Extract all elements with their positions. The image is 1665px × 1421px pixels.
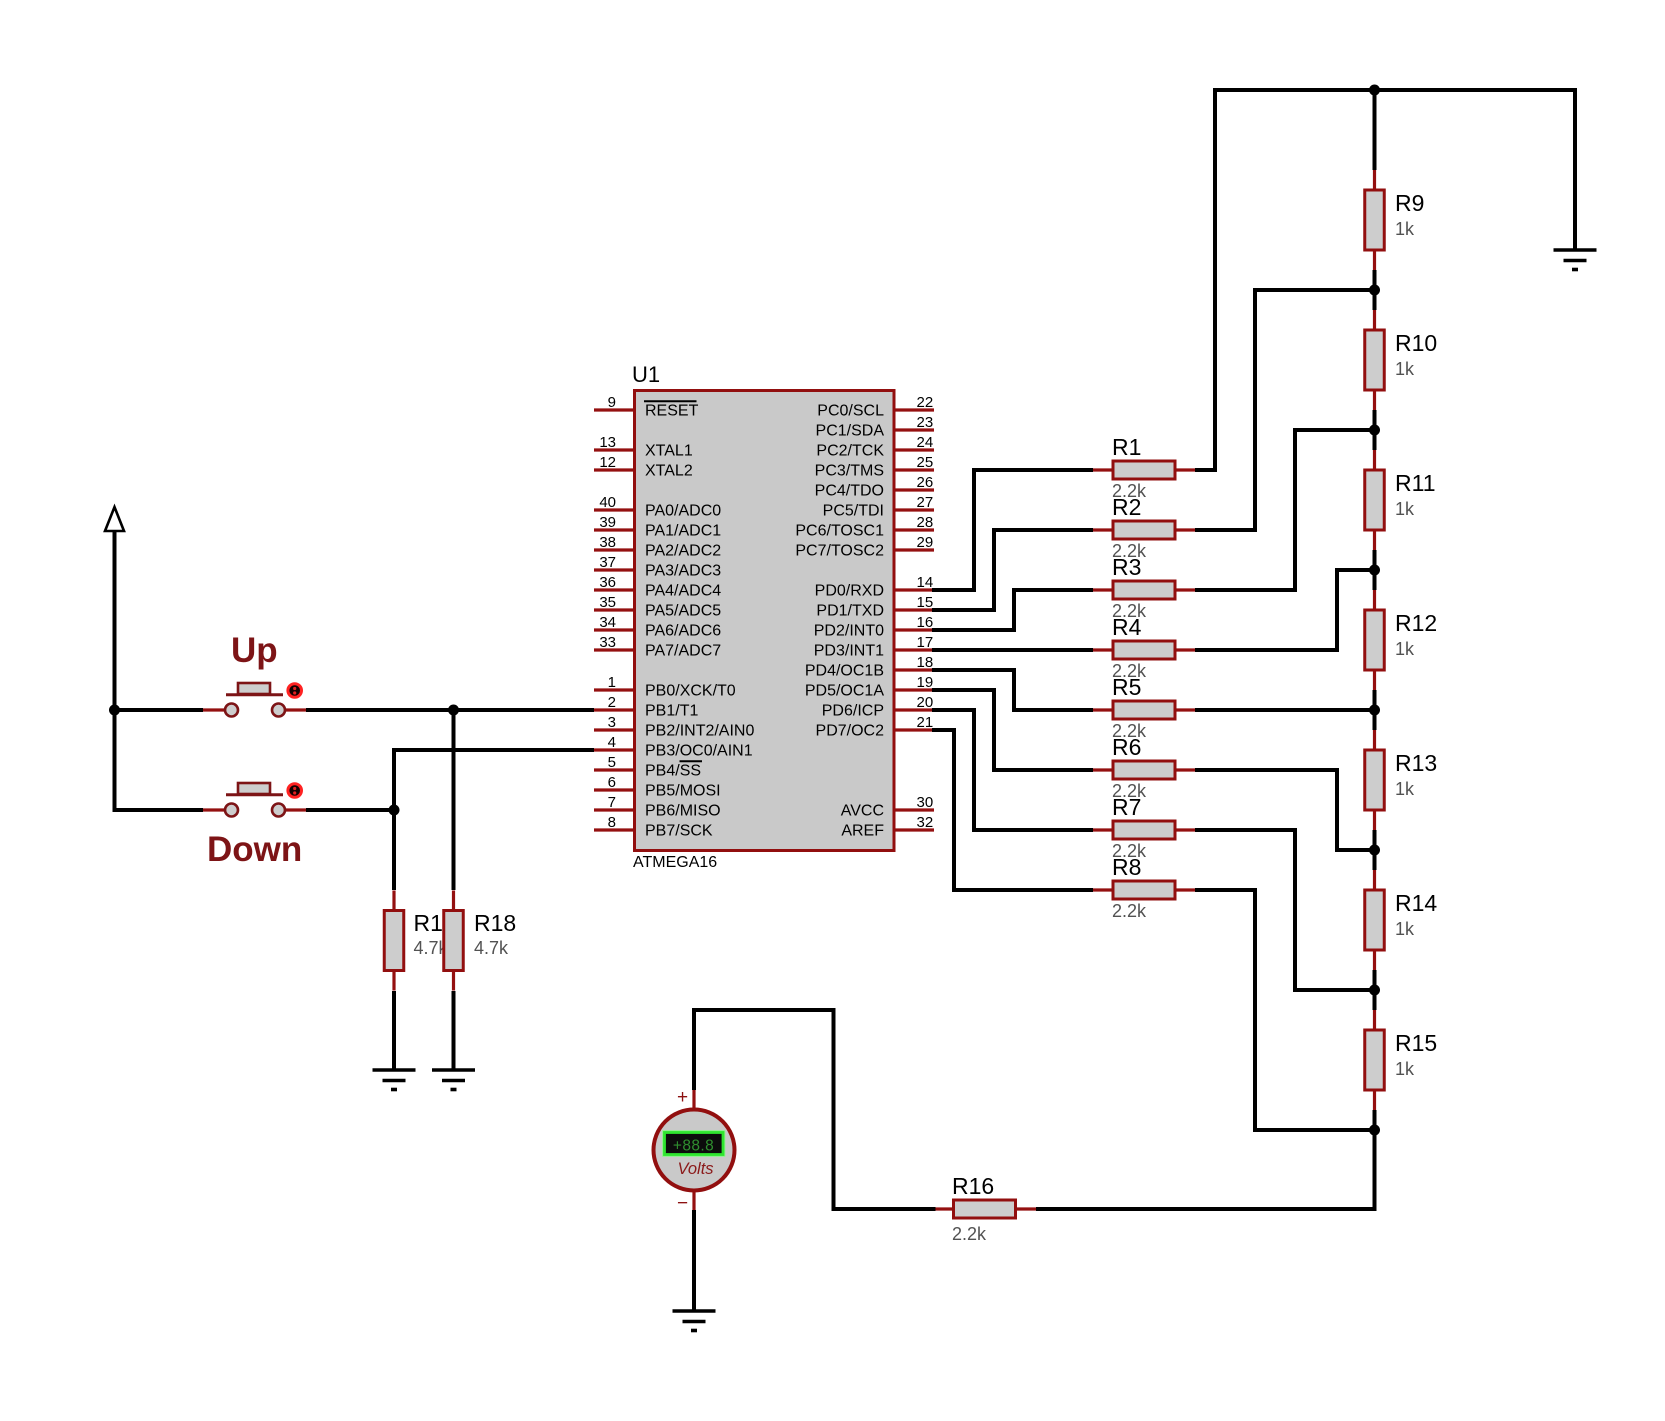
svg-text:22: 22 xyxy=(917,394,934,411)
wire voltmeter positive riser xyxy=(692,1008,696,1090)
svg-text:37: 37 xyxy=(599,554,616,571)
resistor R12 body xyxy=(1365,610,1385,670)
svg-text:PD2/INT0: PD2/INT0 xyxy=(814,623,884,640)
resistor R13 bottom lead xyxy=(1373,810,1376,830)
svg-text:PC4/TDO: PC4/TDO xyxy=(815,483,884,500)
resistor R1 left lead xyxy=(1093,468,1113,471)
resistor R8 left lead xyxy=(1093,888,1113,891)
svg-text:PD0/RXD: PD0/RXD xyxy=(815,583,884,600)
svg-text:R2: R2 xyxy=(1112,494,1141,520)
svg-text:R12: R12 xyxy=(1395,610,1437,636)
wire power vertical rail xyxy=(113,531,117,810)
node ladder junction y=290 xyxy=(1369,285,1380,296)
svg-text:29: 29 xyxy=(917,534,934,551)
pin 14 (PD0/RXD) lead xyxy=(894,588,934,591)
resistor R3 body xyxy=(1113,581,1175,599)
resistor R7 right lead xyxy=(1175,828,1196,831)
resistor R7 left lead xyxy=(1093,828,1113,831)
svg-text:R5: R5 xyxy=(1112,674,1141,700)
svg-text:PB2/INT2/AIN0: PB2/INT2/AIN0 xyxy=(645,723,754,740)
push button Down left terminal xyxy=(225,804,238,817)
svg-text:RESET: RESET xyxy=(645,403,699,420)
node ladder junction y=1130 xyxy=(1369,1125,1380,1136)
svg-text:XTAL1: XTAL1 xyxy=(645,443,693,460)
svg-text:30: 30 xyxy=(917,794,934,811)
pin 24 (PC2/TCK) lead xyxy=(894,448,934,451)
resistor R2 right lead xyxy=(1175,528,1196,531)
pin 35 (PA5/ADC5) lead xyxy=(594,608,634,611)
svg-text:2.2k: 2.2k xyxy=(952,1224,987,1244)
ground below R1 xyxy=(373,1070,416,1090)
svg-text:8: 8 xyxy=(608,814,616,831)
svg-text:AREF: AREF xyxy=(841,823,884,840)
wire R7 to ladder node F xyxy=(1195,828,1297,832)
resistor R14 bottom lead xyxy=(1373,950,1376,970)
svg-text:PD3/INT1: PD3/INT1 xyxy=(814,643,884,660)
node junction to R18 xyxy=(448,705,459,716)
wire ladder spine segment xyxy=(1373,270,1377,310)
svg-text:32: 32 xyxy=(917,814,934,831)
push button Down plunger bar xyxy=(238,783,270,794)
svg-text:PA6/ADC6: PA6/ADC6 xyxy=(645,623,721,640)
voltmeter LCD display xyxy=(663,1131,725,1156)
pin 5 (PB4/SS) lead xyxy=(594,768,634,771)
wire junction up to PB3 row xyxy=(392,748,396,810)
resistor R3 left lead xyxy=(1093,588,1113,591)
push button Down actuator xyxy=(288,784,302,798)
wire top rail down to ground xyxy=(1573,88,1577,250)
resistor R16 body xyxy=(954,1200,1016,1218)
svg-text:PA7/ADC7: PA7/ADC7 xyxy=(645,643,721,660)
svg-text:AVCC: AVCC xyxy=(841,803,884,820)
ground top right xyxy=(1554,250,1597,270)
pin 30 (AVCC) lead xyxy=(894,808,934,811)
wire junction down to R1 xyxy=(392,810,396,890)
resistor R14 body xyxy=(1365,890,1385,950)
wire pin 14 to R1 xyxy=(932,588,974,592)
push button Down left lead xyxy=(203,808,225,811)
svg-text:1k: 1k xyxy=(1395,1059,1415,1079)
resistor R2 left lead xyxy=(1093,528,1113,531)
resistor R13 body xyxy=(1365,750,1385,810)
push button Up actuator xyxy=(288,684,302,698)
resistor R1 right lead xyxy=(1175,468,1196,471)
pin 33 (PA7/ADC7) lead xyxy=(594,648,634,651)
svg-text:18: 18 xyxy=(917,654,934,671)
resistor R9 top lead xyxy=(1373,170,1376,190)
pin 27 (PC5/TDI) lead xyxy=(894,508,934,511)
resistor R3 right lead xyxy=(1175,588,1196,591)
resistor R10 top lead xyxy=(1373,310,1376,330)
wire Down row to junction xyxy=(306,808,394,812)
svg-text:6: 6 xyxy=(608,774,616,791)
resistor R15 body xyxy=(1365,1030,1385,1090)
svg-text:1: 1 xyxy=(608,674,616,691)
svg-text:PA3/ADC3: PA3/ADC3 xyxy=(645,563,721,580)
wire R3 to ladder node B xyxy=(1195,588,1297,592)
svg-text:14: 14 xyxy=(917,574,934,591)
op-amp n/a — microcontroller U1 body xyxy=(635,391,895,851)
wire pin 20 to R7 xyxy=(932,708,974,712)
wire R2 to ladder node A xyxy=(1195,528,1257,532)
wire ladder spine segment xyxy=(1373,970,1377,1010)
resistor R1(4k7) body xyxy=(384,911,404,971)
push button Up right lead xyxy=(285,708,306,711)
svg-text:PD1/TXD: PD1/TXD xyxy=(816,603,884,620)
svg-text:PD6/ICP: PD6/ICP xyxy=(822,703,884,720)
svg-text:PB6/MISO: PB6/MISO xyxy=(645,803,721,820)
wire R18 to ground xyxy=(452,991,456,1070)
resistor R12 bottom lead xyxy=(1373,670,1376,690)
wire pin 21 to R8 xyxy=(932,728,954,732)
svg-text:9: 9 xyxy=(608,394,616,411)
node ladder junction y=850 xyxy=(1369,845,1380,856)
resistor R16 right lead xyxy=(1016,1207,1037,1210)
svg-text:PC5/TDI: PC5/TDI xyxy=(823,503,884,520)
pin 12 (XTAL2) lead xyxy=(594,468,634,471)
wire R6 to ladder node E xyxy=(1195,768,1339,772)
push button Up left lead xyxy=(203,708,225,711)
resistor R2 body xyxy=(1113,521,1175,539)
wire ladder spine segment xyxy=(1373,550,1377,590)
voltmeter body xyxy=(654,1110,735,1191)
pin 18 (PD4/OC1B) lead xyxy=(894,668,934,671)
pin 20 (PD6/ICP) lead xyxy=(894,708,934,711)
svg-text:R1: R1 xyxy=(1112,434,1141,460)
svg-text:PB3/OC0/AIN1: PB3/OC0/AIN1 xyxy=(645,743,753,760)
wire ladder spine segment xyxy=(1373,1110,1377,1132)
push button Up plunger bar xyxy=(238,683,270,694)
pin 28 (PC6/TOSC1) lead xyxy=(894,528,934,531)
svg-text:39: 39 xyxy=(599,514,616,531)
svg-text:R9: R9 xyxy=(1395,190,1424,216)
svg-text:13: 13 xyxy=(599,434,616,451)
wire ladder spine segment xyxy=(1373,690,1377,730)
wire pin 19 to R6 xyxy=(932,688,994,692)
svg-text:4.7k: 4.7k xyxy=(474,938,509,958)
svg-text:28: 28 xyxy=(917,514,934,531)
pin 32 (AREF) lead xyxy=(894,828,934,831)
wire ladder bottom to R16 row xyxy=(1373,1130,1377,1211)
resistor R9 body xyxy=(1365,190,1385,250)
node junction Down/PB3/R1 xyxy=(389,805,400,816)
push button Down right lead xyxy=(285,808,306,811)
svg-text:33: 33 xyxy=(599,634,616,651)
wire ladder spine segment xyxy=(1373,90,1377,170)
pin 22 (PC0/SCL) lead xyxy=(894,408,934,411)
svg-text:40: 40 xyxy=(599,494,616,511)
svg-text:36: 36 xyxy=(599,574,616,591)
resistor R9 bottom lead xyxy=(1373,250,1376,270)
resistor R14 top lead xyxy=(1373,870,1376,890)
svg-text:PC3/TMS: PC3/TMS xyxy=(815,463,884,480)
svg-text:7: 7 xyxy=(608,794,616,811)
pin 6 (PB5/MOSI) lead xyxy=(594,788,634,791)
svg-text:PB1/T1: PB1/T1 xyxy=(645,703,698,720)
resistor R5 body xyxy=(1113,701,1175,719)
wire pin 18 to R5 xyxy=(932,668,1014,672)
pin 40 (PA0/ADC0) lead xyxy=(594,508,634,511)
push button Down contact bar xyxy=(226,793,283,796)
svg-text:XTAL2: XTAL2 xyxy=(645,463,693,480)
resistor R4 body xyxy=(1113,641,1175,659)
svg-text:1k: 1k xyxy=(1395,219,1415,239)
pin 17 (PD3/INT1) lead xyxy=(894,648,934,651)
svg-text:U1: U1 xyxy=(632,362,660,387)
resistor R15 top lead xyxy=(1373,1010,1376,1030)
svg-text:4: 4 xyxy=(608,734,616,751)
resistor R6 right lead xyxy=(1175,768,1196,771)
svg-text:ATMEGA16: ATMEGA16 xyxy=(633,854,717,871)
resistor R1(4k7) top lead xyxy=(392,891,395,911)
pin 21 (PD7/OC2) lead xyxy=(894,728,934,731)
pin 7 (PB6/MISO) lead xyxy=(594,808,634,811)
svg-text:PB4/SS: PB4/SS xyxy=(645,763,701,780)
svg-text:R7: R7 xyxy=(1112,794,1141,820)
svg-text:R13: R13 xyxy=(1395,750,1437,776)
resistor R13 top lead xyxy=(1373,730,1376,750)
svg-text:R3: R3 xyxy=(1112,554,1141,580)
resistor R8 body xyxy=(1113,881,1175,899)
resistor R5 left lead xyxy=(1093,708,1113,711)
resistor R16 left lead xyxy=(934,1207,954,1210)
resistor R8 right lead xyxy=(1175,888,1196,891)
pin 29 (PC7/TOSC2) lead xyxy=(894,548,934,551)
voltmeter minus lead xyxy=(692,1190,695,1210)
resistor R18 top lead xyxy=(452,891,455,911)
svg-text:PA2/ADC2: PA2/ADC2 xyxy=(645,543,721,560)
svg-text:16: 16 xyxy=(917,614,934,631)
svg-text:PA1/ADC1: PA1/ADC1 xyxy=(645,523,721,540)
svg-text:PA4/ADC4: PA4/ADC4 xyxy=(645,583,721,600)
node top rail / R9 junction xyxy=(1369,85,1380,96)
svg-text:PC2/TCK: PC2/TCK xyxy=(816,443,884,460)
pin 9 (RESET) lead xyxy=(594,408,634,411)
wire pin 16 to R3 xyxy=(932,628,1014,632)
wire Up row to PB1 pin 2 xyxy=(306,708,594,712)
svg-text:+88.8: +88.8 xyxy=(673,1138,714,1155)
svg-text:38: 38 xyxy=(599,534,616,551)
power supply arrow symbol xyxy=(105,507,124,531)
svg-text:3: 3 xyxy=(608,714,616,731)
pin 37 (PA3/ADC3) lead xyxy=(594,568,634,571)
resistor R11 body xyxy=(1365,470,1385,530)
wire R5 to ladder node D xyxy=(1195,708,1375,712)
wire ladder spine segment xyxy=(1373,410,1377,450)
svg-text:17: 17 xyxy=(917,634,934,651)
ground below voltmeter xyxy=(673,1311,716,1331)
push button Up contact bar xyxy=(226,693,283,696)
pin 25 (PC3/TMS) lead xyxy=(894,468,934,471)
pin 2 (PB1/T1) lead xyxy=(594,708,634,711)
svg-text:PB7/SCK: PB7/SCK xyxy=(645,823,713,840)
svg-text:21: 21 xyxy=(917,714,934,731)
svg-text:R15: R15 xyxy=(1395,1030,1437,1056)
svg-text:35: 35 xyxy=(599,594,616,611)
push button Up left terminal xyxy=(225,704,238,717)
svg-text:−: − xyxy=(677,1193,688,1214)
svg-text:2: 2 xyxy=(608,694,616,711)
wire R16 to voltmeter xyxy=(834,1207,936,1211)
pin 23 (PC1/SDA) lead xyxy=(894,428,934,431)
svg-text:+: + xyxy=(677,1087,688,1108)
pin 1 (PB0/XCK/T0) lead xyxy=(594,688,634,691)
svg-text:PD5/OC1A: PD5/OC1A xyxy=(805,683,884,700)
wire Up row left segment xyxy=(113,708,204,712)
node ladder junction y=570 xyxy=(1369,565,1380,576)
resistor R11 top lead xyxy=(1373,450,1376,470)
pin 39 (PA1/ADC1) lead xyxy=(594,528,634,531)
wire pin 15 to R2 xyxy=(932,608,994,612)
svg-text:34: 34 xyxy=(599,614,616,631)
resistor R10 bottom lead xyxy=(1373,390,1376,410)
overline on SS of PB4/SS xyxy=(680,760,703,762)
svg-text:5: 5 xyxy=(608,754,616,771)
svg-text:Volts: Volts xyxy=(677,1160,713,1178)
pin 26 (PC4/TDO) lead xyxy=(894,488,934,491)
svg-text:Down: Down xyxy=(207,830,302,869)
wire R18 riser xyxy=(452,710,456,890)
svg-text:23: 23 xyxy=(917,414,934,431)
svg-text:R8: R8 xyxy=(1112,854,1141,880)
svg-text:1k: 1k xyxy=(1395,919,1415,939)
wire R4 to ladder node C xyxy=(1195,648,1339,652)
svg-text:PC0/SCL: PC0/SCL xyxy=(817,403,884,420)
svg-text:25: 25 xyxy=(917,454,934,471)
node ladder junction y=710 xyxy=(1369,705,1380,716)
svg-text:R18: R18 xyxy=(474,910,516,936)
pin 15 (PD1/TXD) lead xyxy=(894,608,934,611)
svg-text:1k: 1k xyxy=(1395,359,1415,379)
svg-text:1k: 1k xyxy=(1395,499,1415,519)
svg-text:19: 19 xyxy=(917,674,934,691)
wire R1 to top rail xyxy=(1195,468,1217,472)
pin 13 (XTAL1) lead xyxy=(594,448,634,451)
node at Up row / power rail junction xyxy=(109,705,120,716)
resistor R6 left lead xyxy=(1093,768,1113,771)
svg-text:PD7/OC2: PD7/OC2 xyxy=(816,723,885,740)
pin 16 (PD2/INT0) lead xyxy=(894,628,934,631)
svg-text:20: 20 xyxy=(917,694,934,711)
wire to PB3 pin 4 xyxy=(392,748,594,752)
resistor R15 bottom lead xyxy=(1373,1090,1376,1110)
resistor R11 bottom lead xyxy=(1373,530,1376,550)
resistor R7 body xyxy=(1113,821,1175,839)
svg-text:24: 24 xyxy=(917,434,934,451)
wire Down row left segment xyxy=(113,808,204,812)
resistor R6 body xyxy=(1113,761,1175,779)
svg-text:PC1/SDA: PC1/SDA xyxy=(816,423,885,440)
wire R1 to ground xyxy=(392,991,396,1070)
svg-text:PB0/XCK/T0: PB0/XCK/T0 xyxy=(645,683,736,700)
svg-text:R6: R6 xyxy=(1112,734,1141,760)
wire voltmeter to ground xyxy=(692,1210,696,1311)
svg-text:12: 12 xyxy=(599,454,616,471)
wire R8 to ladder node G xyxy=(1195,888,1257,892)
overline on RESET xyxy=(644,400,697,402)
ground below R18 xyxy=(432,1070,475,1090)
svg-text:1k: 1k xyxy=(1395,639,1415,659)
wire top rail xyxy=(1213,88,1575,92)
svg-text:PD4/OC1B: PD4/OC1B xyxy=(805,663,884,680)
pin 38 (PA2/ADC2) lead xyxy=(594,548,634,551)
wire pin 17 to R4 xyxy=(932,648,1093,652)
svg-text:R16: R16 xyxy=(952,1173,994,1199)
svg-text:PA0/ADC0: PA0/ADC0 xyxy=(645,503,721,520)
pin 8 (PB7/SCK) lead xyxy=(594,828,634,831)
pin 4 (PB3/OC0/AIN1) lead xyxy=(594,748,634,751)
svg-text:R1: R1 xyxy=(414,910,443,936)
svg-text:R4: R4 xyxy=(1112,614,1142,640)
resistor R1(4k7) bottom lead xyxy=(392,971,395,991)
wire ladder spine segment xyxy=(1373,830,1377,870)
svg-text:PA5/ADC5: PA5/ADC5 xyxy=(645,603,721,620)
resistor R18 bottom lead xyxy=(452,971,455,991)
node ladder junction y=430 xyxy=(1369,425,1380,436)
svg-text:R11: R11 xyxy=(1395,470,1436,496)
pin 19 (PD5/OC1A) lead xyxy=(894,688,934,691)
resistor R1 body xyxy=(1113,461,1175,479)
svg-text:PC6/TOSC1: PC6/TOSC1 xyxy=(795,523,884,540)
resistor R12 top lead xyxy=(1373,590,1376,610)
resistor R4 left lead xyxy=(1093,648,1113,651)
svg-text:R14: R14 xyxy=(1395,890,1437,916)
svg-text:2.2k: 2.2k xyxy=(1112,901,1147,921)
resistor R10 body xyxy=(1365,330,1385,390)
resistor R5 right lead xyxy=(1175,708,1196,711)
svg-text:15: 15 xyxy=(917,594,934,611)
pin 34 (PA6/ADC6) lead xyxy=(594,628,634,631)
push button Up right terminal xyxy=(272,704,285,717)
svg-text:Up: Up xyxy=(231,631,278,670)
resistor R18 body xyxy=(444,911,464,971)
svg-text:27: 27 xyxy=(917,494,934,511)
resistor R4 right lead xyxy=(1175,648,1196,651)
node ladder junction y=990 xyxy=(1369,985,1380,996)
voltmeter plus lead xyxy=(692,1090,695,1110)
pin 3 (PB2/INT2/AIN0) lead xyxy=(594,728,634,731)
svg-text:26: 26 xyxy=(917,474,934,491)
svg-text:1k: 1k xyxy=(1395,779,1415,799)
svg-text:R10: R10 xyxy=(1395,330,1437,356)
svg-text:PC7/TOSC2: PC7/TOSC2 xyxy=(795,543,884,560)
svg-text:PB5/MOSI: PB5/MOSI xyxy=(645,783,721,800)
push button Down right terminal xyxy=(272,804,285,817)
pin 36 (PA4/ADC4) lead xyxy=(594,588,634,591)
